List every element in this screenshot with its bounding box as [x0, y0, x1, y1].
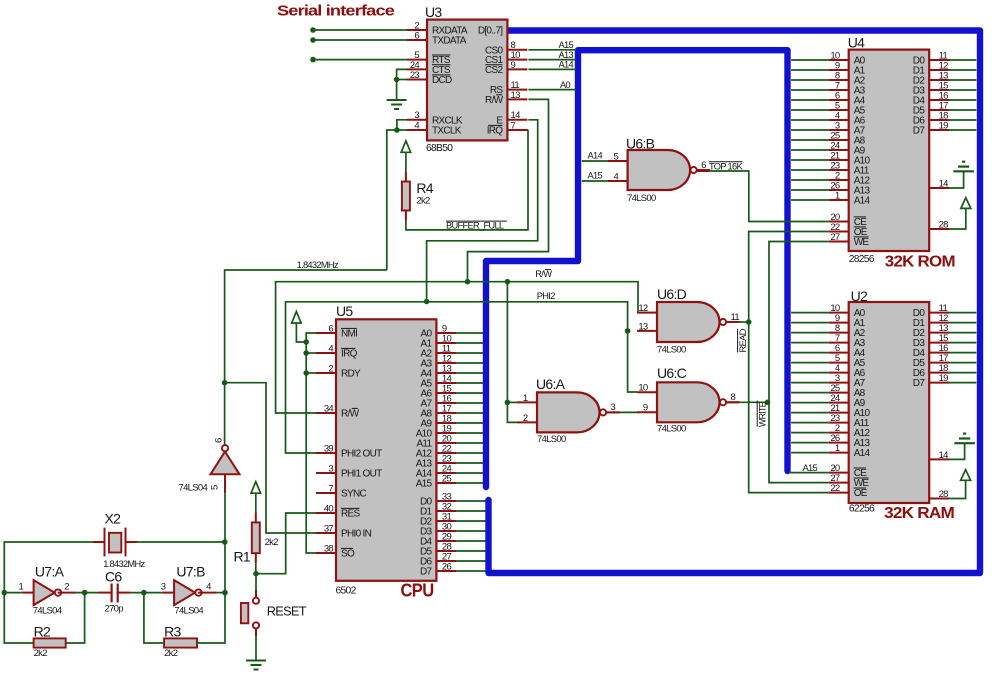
svg-text:39: 39: [324, 443, 334, 454]
svg-text:13: 13: [638, 321, 648, 332]
NAND gate U6:D (74LS00): [637, 286, 740, 356]
svg-text:Serial interface: Serial interface: [277, 3, 394, 20]
svg-text:68B50: 68B50: [426, 143, 453, 154]
svg-text:R4: R4: [416, 180, 433, 196]
svg-text:A15: A15: [588, 171, 603, 181]
svg-text:CS2: CS2: [485, 65, 503, 76]
svg-text:6502: 6502: [336, 586, 357, 597]
inverter 74LS04 buffer (vertical) pins 5/6: [179, 438, 240, 493]
svg-text:13: 13: [511, 90, 521, 101]
svg-text:6: 6: [414, 30, 419, 41]
wire ROM pin28 to VCC: [949, 208, 966, 229]
svg-text:U5: U5: [336, 303, 353, 319]
svg-text:28: 28: [939, 489, 949, 500]
svg-text:2: 2: [328, 363, 333, 374]
svg-text:R2: R2: [34, 624, 51, 640]
NAND gate U6:A (74LS00): [517, 376, 620, 445]
svg-text:A14: A14: [854, 196, 871, 207]
address bus (thick blue): CPU A0..A15 to ROM/RAM: [486, 50, 788, 487]
svg-text:74LS00: 74LS00: [657, 424, 686, 435]
wire to reset switch: [255, 574, 257, 590]
svg-text:D7: D7: [913, 126, 926, 137]
svg-text:4: 4: [614, 171, 619, 182]
svg-text:7: 7: [328, 483, 333, 494]
svg-text:19: 19: [939, 373, 949, 384]
wire 1.8432MHz clock net from oscillator to U3: [225, 270, 387, 446]
wire U7:A output node: [58, 592, 77, 594]
svg-text:A15: A15: [416, 479, 433, 490]
svg-text:DCD: DCD: [432, 75, 452, 86]
svg-text:R/W: R/W: [535, 269, 552, 279]
svg-text:PHI1 OUT: PHI1 OUT: [341, 469, 382, 480]
ground symbol below RESET: [246, 660, 266, 662]
svg-text:D[0..7]: D[0..7]: [478, 26, 503, 37]
wire U3 R/W down to CPU R/W net: [468, 99, 549, 281]
wire A15 from bus end to RAM CE: [789, 472, 829, 474]
svg-text:X2: X2: [105, 511, 122, 527]
IC U5 6502 CPU: [316, 303, 456, 601]
svg-text:23: 23: [410, 70, 420, 81]
svg-text:1.8432MHz: 1.8432MHz: [297, 260, 339, 270]
power arrow RAM pin 28: [961, 470, 971, 481]
wire RXDATA with terminal dot: [313, 29, 407, 31]
wire U7:B output node: [198, 592, 217, 594]
wires RAM A0..A14 from address bus: [791, 313, 829, 453]
svg-text:U3: U3: [425, 4, 442, 20]
svg-text:27: 27: [830, 232, 840, 243]
svg-text:RDY: RDY: [341, 369, 361, 380]
NAND gate U6:C (74LS00): [637, 365, 740, 435]
svg-text:1: 1: [19, 581, 24, 592]
svg-text:IRQ: IRQ: [341, 349, 358, 360]
svg-text:1: 1: [523, 393, 528, 404]
wire R/W to U6:A inputs: [507, 282, 517, 423]
svg-text:U6:A: U6:A: [536, 376, 566, 392]
wire U3 IRQ down to BUFFER_FULL / R4: [406, 130, 529, 230]
wire TXCLK / clock net down to 1.8432MHz line: [387, 130, 407, 270]
capacitor C6 270p: [99, 568, 131, 614]
svg-text:34: 34: [324, 403, 334, 414]
svg-text:C6: C6: [105, 568, 122, 584]
svg-text:6: 6: [214, 438, 225, 443]
IC U4 28256 32K ROM: [829, 34, 955, 270]
wire CS2 to bus, net A14: [528, 68, 576, 70]
svg-text:9: 9: [643, 403, 648, 414]
wire IRQ branch: [306, 352, 316, 354]
svg-text:TOP 16K: TOP 16K: [709, 161, 743, 171]
svg-text:2k2: 2k2: [34, 648, 48, 659]
wires ROM A0..A14 from address bus: [791, 60, 829, 200]
svg-text:TXDATA: TXDATA: [432, 36, 467, 47]
wire R3 loop: [144, 593, 164, 643]
svg-text:NMI: NMI: [341, 329, 357, 340]
svg-text:U7:B: U7:B: [176, 563, 205, 579]
svg-text:A14: A14: [559, 60, 574, 70]
svg-text:12: 12: [638, 303, 648, 314]
power arrow VCC above R4: [401, 141, 411, 153]
data bus D[0..7] (thick blue): U3 to ROM/RAM/CPU ring: [489, 31, 981, 574]
wires RAM D0..D7 to data bus: [949, 313, 976, 383]
svg-text:74LS04: 74LS04: [33, 605, 62, 616]
crystal X2 1.8432MHz: [93, 511, 145, 569]
svg-text:9: 9: [511, 60, 516, 71]
power arrow VCC above R1: [251, 482, 260, 494]
wire ROM pin14 to ground: [949, 171, 964, 188]
wire VCC to R1: [255, 493, 257, 512]
svg-text:READ: READ: [737, 328, 748, 352]
push button RESET: [241, 598, 307, 629]
wire R2 loop: [4, 593, 33, 643]
svg-text:28256: 28256: [849, 254, 875, 265]
wire CTS/DCD to ground: [397, 69, 407, 100]
svg-text:6: 6: [328, 323, 333, 334]
ground symbol RAM pin 14: [954, 442, 975, 444]
wire RAM pin14 to ground: [949, 443, 965, 459]
svg-text:PHI0 IN: PHI0 IN: [341, 529, 372, 540]
wire RXCLK to TXCLK junction: [397, 120, 407, 130]
svg-text:32K RAM: 32K RAM: [884, 505, 954, 522]
resistor R1 2k2: [252, 522, 260, 553]
inverter U7:A 74LS04: [19, 563, 70, 616]
svg-text:D7: D7: [913, 378, 926, 389]
svg-text:PHI2 OUT: PHI2 OUT: [341, 449, 382, 460]
svg-text:1: 1: [835, 190, 840, 201]
wire RTS with terminal dot: [313, 59, 407, 61]
svg-text:14: 14: [939, 450, 949, 461]
svg-text:74LS00: 74LS00: [627, 193, 656, 204]
svg-text:U6:B: U6:B: [626, 136, 655, 152]
svg-text:26: 26: [442, 561, 452, 572]
svg-text:14: 14: [939, 178, 949, 189]
wires ROM D0..D7 to data bus: [949, 60, 976, 130]
svg-text:WE: WE: [854, 237, 870, 248]
svg-text:R/W: R/W: [485, 95, 504, 106]
svg-text:U6:D: U6:D: [657, 286, 687, 302]
svg-text:A13: A13: [559, 50, 574, 60]
svg-text:270p: 270p: [105, 604, 124, 615]
svg-text:5: 5: [210, 485, 221, 490]
wire U6:B output TOP 16K to ROM CE: [697, 170, 710, 172]
ground symbol below DCD: [387, 99, 407, 101]
wires CPU A0..A15 to address bus: [456, 333, 483, 483]
svg-text:A15: A15: [559, 40, 574, 50]
svg-text:SYNC: SYNC: [341, 489, 366, 500]
svg-text:22: 22: [830, 483, 840, 494]
svg-text:25: 25: [442, 473, 452, 484]
svg-text:R1: R1: [234, 548, 251, 564]
wire WRITE net vertical (ROM WE to RAM WE): [769, 242, 829, 483]
svg-text:10: 10: [638, 383, 648, 394]
ground symbol ROM pin 14: [953, 170, 974, 172]
wire TXDATA with terminal dot: [313, 39, 407, 41]
NAND gate U6:B (74LS00): [608, 136, 711, 205]
svg-text:37: 37: [324, 523, 334, 534]
svg-text:OE: OE: [854, 488, 868, 499]
resistor R4 2k2: [402, 182, 410, 211]
svg-text:TXCLK: TXCLK: [432, 126, 462, 137]
svg-text:U2: U2: [851, 288, 868, 304]
wire switch to ground: [255, 629, 257, 637]
IC U3 68B50 ACIA serial interface: [407, 4, 527, 154]
svg-text:4: 4: [206, 581, 211, 592]
svg-text:7: 7: [511, 120, 516, 131]
svg-text:4: 4: [414, 120, 419, 131]
wire READ net vertical (ROM OE to RAM OE): [749, 232, 829, 493]
svg-text:R3: R3: [164, 624, 181, 640]
svg-text:32K ROM: 32K ROM: [885, 253, 955, 270]
wire CS1 to bus, net A13: [528, 59, 576, 61]
wire RDY branch: [306, 372, 316, 374]
wire A15 from bus to U6:B pin 4: [582, 180, 608, 182]
svg-text:A14: A14: [588, 151, 603, 161]
svg-text:2k2: 2k2: [265, 537, 279, 548]
wire U6:C output to WRITE net: [726, 401, 739, 403]
svg-text:74LS04: 74LS04: [179, 482, 208, 493]
wire RAM pin28 to VCC: [949, 480, 966, 498]
wires CPU D0..D7 to data bus: [456, 501, 485, 571]
wire RES net to R1/reset switch: [256, 513, 316, 574]
wire C6 right to U7:B input node: [130, 592, 162, 594]
svg-text:74LS00: 74LS00: [657, 345, 686, 356]
IC U2 62256 32K RAM: [829, 288, 955, 522]
power arrow VCC pull-up for NMI/IRQ/RDY/SO: [292, 312, 302, 324]
svg-text:RESET: RESET: [267, 603, 307, 618]
svg-text:U6:C: U6:C: [657, 365, 687, 381]
resistor R2 2k2 feedback: [34, 624, 66, 660]
wire VCC pull-up net: [296, 323, 306, 342]
svg-text:IRQ: IRQ: [487, 126, 504, 137]
wire U6:A output to U6:C pin 9: [606, 411, 619, 413]
resistor R3 2k2 feedback: [164, 624, 197, 660]
svg-text:40: 40: [324, 503, 334, 514]
wire U6:D output to READ net: [726, 321, 739, 323]
svg-text:WRITE: WRITE: [757, 401, 767, 427]
svg-text:A14: A14: [854, 448, 871, 459]
wire A14 from bus to U6:B pin 5: [582, 160, 608, 162]
svg-text:62256: 62256: [849, 504, 875, 515]
wire U7:A input: [4, 592, 22, 594]
wire X2 left to U7:A input: [4, 542, 93, 593]
wire U3 E down to PHI2 net: [427, 120, 538, 302]
svg-text:5: 5: [614, 151, 619, 162]
svg-text:38: 38: [324, 543, 334, 554]
svg-text:CPU: CPU: [401, 581, 434, 601]
wire RS to bus, net A0: [528, 89, 576, 91]
svg-text:U4: U4: [848, 34, 865, 50]
svg-text:74LS00: 74LS00: [537, 434, 566, 445]
svg-text:6: 6: [701, 160, 706, 171]
svg-text:RES: RES: [341, 509, 360, 520]
svg-text:2k2: 2k2: [416, 196, 430, 207]
svg-text:74LS04: 74LS04: [174, 605, 203, 616]
svg-text:2: 2: [64, 581, 69, 592]
wire VCC to R4: [405, 152, 407, 171]
inverter U7:B 74LS04: [161, 563, 211, 616]
svg-text:3: 3: [161, 581, 166, 592]
svg-text:D7: D7: [420, 567, 433, 578]
svg-text:1: 1: [835, 443, 840, 454]
wire PHI2 net from CPU pin 39: [286, 302, 638, 453]
svg-text:R/W: R/W: [341, 409, 360, 420]
svg-text:28: 28: [939, 219, 949, 230]
svg-text:PHI2: PHI2: [537, 291, 555, 301]
wire R/W net from CPU pin 34: [276, 282, 657, 413]
wire oscillator node vertical: [224, 542, 226, 593]
wire X2 right to oscillator output node: [137, 541, 225, 543]
junction R1/RES/switch: [253, 571, 259, 577]
svg-text:2: 2: [523, 413, 528, 424]
wire clock to CPU PHI0 IN: [225, 383, 316, 533]
wire CS0 to bus, net A15: [528, 49, 576, 51]
svg-text:U7:A: U7:A: [35, 563, 65, 579]
svg-text:2k2: 2k2: [164, 648, 178, 659]
svg-text:A0: A0: [560, 80, 571, 90]
wire inverter input from oscillator: [224, 474, 226, 492]
svg-text:A15: A15: [803, 463, 818, 473]
power arrow ROM pin 28: [961, 198, 971, 209]
svg-text:3: 3: [328, 463, 333, 474]
svg-text:4: 4: [328, 343, 333, 354]
svg-text:19: 19: [939, 120, 949, 131]
svg-text:BUFFER_FULL: BUFFER_FULL: [446, 221, 504, 231]
junction clock to PHI0 IN: [222, 380, 228, 386]
svg-text:SO: SO: [341, 549, 355, 560]
